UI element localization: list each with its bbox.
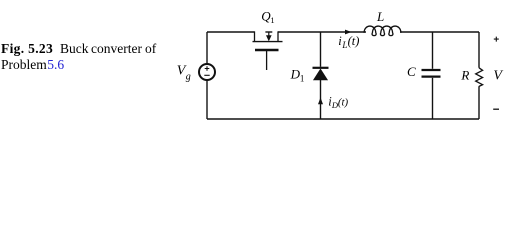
diode D1 [313,68,329,80]
caption line 1 [1,41,53,57]
wire resistor branch upper [478,32,480,68]
wire top-left from corner to MOSFET drain [207,31,255,33]
svg-text:1: 1 [300,73,305,83]
svg-text:L: L [341,40,347,50]
wire top from MOSFET source to inductor [278,31,366,33]
arrow iL on top wire [345,30,352,35]
wire left branch upper [206,32,208,64]
wire diode branch lower [320,80,322,119]
svg-text:1: 1 [270,15,274,25]
capacitor C [422,70,441,77]
minus sign output [493,108,499,110]
wire left branch lower [206,80,208,119]
svg-text:C: C [407,64,416,79]
resistor R [476,68,483,87]
caption line 2 [1,57,64,73]
label iD(t) [328,95,348,111]
wire capacitor branch lower [432,78,434,119]
label Vg [177,63,191,82]
label Q1 [261,9,274,26]
voltage source Vg [199,64,215,80]
label iL(t) [338,34,359,50]
inductor L [364,26,401,36]
label D1 [290,67,305,84]
svg-text:(t): (t) [348,34,360,48]
wire top from inductor to top-right corner [400,31,479,33]
svg-text:g: g [186,72,191,83]
wire bottom [207,118,479,120]
svg-text:V: V [493,69,503,84]
arrow iD on diode branch [318,98,323,105]
plus sign output [494,37,499,42]
svg-text:(t): (t) [338,97,349,109]
wire resistor branch lower [478,86,480,119]
wire capacitor branch upper [432,32,434,69]
transistor Q1 [253,31,283,70]
svg-text:R: R [460,68,469,83]
svg-text:L: L [376,9,384,24]
wire diode branch upper [320,32,322,67]
